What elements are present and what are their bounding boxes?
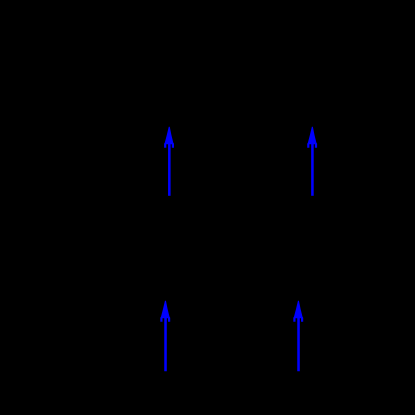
current source I1 (blue arrow) <box>164 127 174 196</box>
wire branch I2 <box>311 110 313 240</box>
wire top rail <box>60 109 360 111</box>
wire branch I3 <box>165 240 167 385</box>
wire bottom rail <box>60 384 360 386</box>
wire branch I1 <box>168 110 170 240</box>
current source I4 (blue arrow) <box>293 301 303 372</box>
ground <box>188 385 212 408</box>
wire branch I4 <box>298 240 300 385</box>
current source I2 (blue arrow) <box>307 127 317 196</box>
wire middle rail <box>60 239 360 241</box>
current source I3 (blue arrow) <box>160 301 170 372</box>
